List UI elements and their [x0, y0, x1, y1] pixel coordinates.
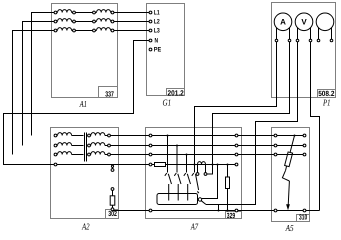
- transformer primary row2: [58, 143, 72, 146]
- bus2 A7: [152, 145, 235, 147]
- wire row3 A1 to G1: [114, 30, 149, 32]
- inductor row1 coil2: [97, 10, 111, 13]
- wire voltmeter right to rail: [311, 42, 320, 211]
- wire row1 terminal links: [56, 12, 59, 14]
- wire row3 A7 to A5: [238, 154, 303, 156]
- inductor row3 coil1: [58, 28, 72, 31]
- terminal chain on rail: [111, 208, 114, 211]
- svg-text:A2: A2: [81, 222, 90, 232]
- bus4 A7 with resistor: [152, 164, 155, 166]
- svg-text:P1: P1: [322, 97, 330, 107]
- switch pole3: [186, 155, 188, 173]
- svg-text:337: 337: [105, 89, 114, 98]
- svg-text:L3: L3: [154, 28, 160, 35]
- discharge diagonal upper: [290, 136, 294, 153]
- wire tie to rail: [218, 205, 220, 211]
- bus3 A7: [152, 154, 235, 156]
- block P1 box: [272, 3, 336, 98]
- svg-text:329: 329: [227, 211, 235, 220]
- svg-text:G1: G1: [163, 98, 172, 108]
- terminals A1 and G1: [54, 11, 152, 51]
- svg-text:310: 310: [299, 212, 307, 221]
- block A7 box: [146, 128, 242, 219]
- spare meter P1: [316, 13, 334, 31]
- wire row2 A1 to G1: [114, 21, 149, 23]
- svg-text:V: V: [301, 18, 307, 27]
- wire row1 A2 to A7: [110, 135, 149, 137]
- switch pole4: [194, 164, 196, 166]
- wire row1 A1 to G1: [114, 12, 149, 14]
- wire row3 terminal links: [56, 30, 59, 32]
- transformer primary row1: [58, 133, 72, 136]
- block A1 box: [52, 4, 118, 98]
- inductor row2 coil2: [97, 19, 111, 22]
- wire L2 feeder: [23, 22, 55, 146]
- node A-right on bus4: [212, 164, 214, 166]
- svg-text:L1: L1: [154, 10, 160, 17]
- relay coil on bus4: [198, 162, 206, 165]
- transformer primary row3: [58, 152, 72, 155]
- wire row1 mid: [75, 12, 92, 14]
- blade arrowhead: [197, 191, 199, 194]
- actuator box: [157, 194, 198, 205]
- terminals A2: [54, 134, 110, 166]
- transformer secondary row1: [91, 133, 105, 136]
- inductor row1 coil1: [58, 10, 72, 13]
- bus1 A7: [152, 135, 235, 137]
- svg-text:N: N: [155, 38, 159, 45]
- wire ammeter right to coil terminal: [207, 42, 290, 174]
- svg-text:201.2: 201.2: [168, 89, 184, 98]
- arrow shaft to rail: [288, 181, 289, 206]
- transformer secondary row3: [91, 152, 105, 155]
- svg-text:L2: L2: [154, 19, 160, 26]
- wire neutral link stub: [112, 167, 114, 168]
- wire pivot to V wire: [201, 201, 206, 205]
- wire pivot to bus4: [202, 165, 218, 199]
- node neutral tap: [111, 165, 113, 167]
- discharge diagonal mid: [286, 166, 287, 170]
- node diagonal top: [294, 135, 296, 137]
- terminal resistor top: [111, 188, 114, 191]
- pivot node: [198, 198, 201, 201]
- block A5 box: [272, 128, 310, 222]
- inductor row3 coil2: [97, 28, 111, 31]
- terminal link lower: [111, 169, 114, 172]
- arrowhead on rail: [286, 204, 290, 210]
- terminals A5: [274, 134, 306, 212]
- svg-text:A: A: [280, 18, 286, 27]
- wire N from G1 to A2: [4, 41, 150, 165]
- resistor tilted: [285, 152, 293, 167]
- voltmeter P1 V: [295, 13, 313, 31]
- block A2 box: [51, 128, 119, 219]
- wire row2 terminal links: [56, 21, 59, 23]
- svg-text:A7: A7: [190, 221, 199, 231]
- transformer secondary row2: [91, 143, 105, 146]
- wire row1 A7 to A5: [238, 135, 303, 137]
- wire row4 A2 to A7: [57, 164, 149, 166]
- transformer core: [84, 133, 86, 162]
- P1 terminals: [275, 39, 333, 42]
- wire row2 A7 to A5: [238, 145, 303, 147]
- svg-text:A1: A1: [79, 99, 87, 109]
- wire ammeter left to switch pole4: [195, 42, 277, 173]
- resistor A7 right: [227, 164, 229, 166]
- wire row2 mid: [75, 21, 92, 23]
- lightning bolt: [282, 170, 289, 181]
- wire row3 mid: [75, 30, 92, 32]
- wire row2 A2 to A7: [110, 145, 149, 147]
- inductor row2 coil1: [58, 19, 72, 22]
- svg-text:PE: PE: [154, 47, 162, 54]
- wire row3 A2 to A7: [110, 154, 149, 156]
- wire L3 feeder: [13, 31, 55, 155]
- wire voltmeter left to switch arm: [206, 42, 298, 205]
- rail measurement common: [113, 210, 320, 212]
- switch pole1: [167, 136, 169, 173]
- terminals A7: [149, 134, 238, 212]
- wire L1 feeder: [32, 13, 55, 136]
- ammeter P1 A: [274, 13, 292, 31]
- block G1 box: [147, 4, 185, 96]
- meter leads: [276, 28, 278, 40]
- svg-text:A5: A5: [285, 223, 294, 233]
- switch pole2: [176, 146, 178, 173]
- resistor A2 grounding: [112, 190, 114, 195]
